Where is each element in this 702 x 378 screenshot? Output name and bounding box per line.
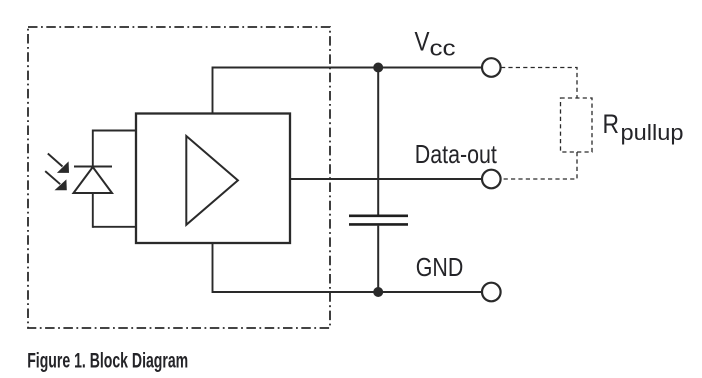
resistor Rpullup	[561, 98, 593, 152]
svg-text:Figure 1. Block Diagram: Figure 1. Block Diagram	[27, 350, 188, 373]
junction Vcc node	[373, 63, 383, 73]
svg-text:cc: cc	[430, 36, 456, 61]
svg-text:Data-out: Data-out	[415, 139, 498, 169]
svg-text:R: R	[603, 109, 620, 139]
wire capacitor top	[377, 68, 379, 215]
amplifier block U1	[136, 114, 290, 244]
terminal Data-out	[482, 170, 501, 189]
light arrow 1	[48, 154, 69, 173]
wire dashed Vcc terminal to Rpullup	[501, 68, 577, 99]
label Rpullup	[603, 109, 684, 145]
light arrow 2	[45, 171, 67, 190]
label Vcc	[415, 27, 456, 61]
svg-text:GND: GND	[416, 252, 464, 282]
dashed package outline	[28, 27, 330, 328]
terminal Vcc	[482, 58, 501, 77]
terminal GND	[482, 283, 501, 302]
wire GND from amplifier	[213, 243, 482, 292]
capacitor C1	[349, 216, 408, 225]
svg-text:V: V	[415, 27, 430, 57]
wire Vcc from amplifier	[213, 68, 482, 114]
wire capacitor bottom	[377, 226, 379, 292]
wire dashed Rpullup to Data-out terminal	[502, 152, 577, 179]
wire photodiode loop top	[93, 130, 136, 132]
amplifier triangle	[186, 136, 238, 225]
wire Data-out	[290, 178, 481, 180]
photodiode D1	[74, 130, 113, 228]
wire photodiode loop bottom	[93, 226, 136, 228]
svg-text:pullup: pullup	[621, 120, 684, 145]
junction GND node	[373, 287, 383, 297]
